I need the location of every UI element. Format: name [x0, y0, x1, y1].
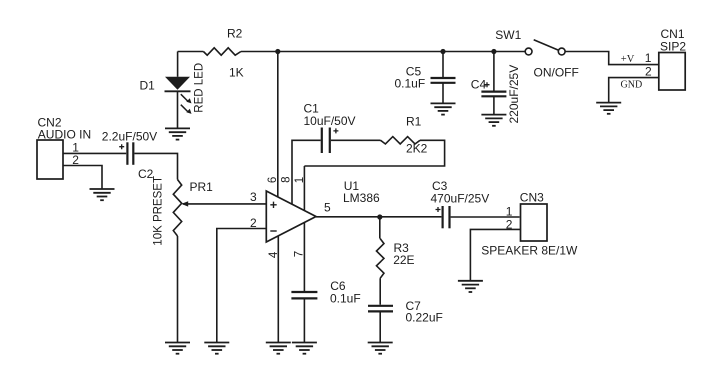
label C6 — [330, 279, 346, 293]
label C5 — [406, 65, 422, 79]
op-amp U1 — [266, 191, 316, 242]
polarity plus C3 — [436, 207, 441, 212]
label C3 — [432, 179, 448, 193]
ground CN2 — [90, 189, 115, 200]
svg-text:R2: R2 — [227, 27, 243, 41]
pin number 2 CN2 — [72, 153, 79, 167]
capacitor C6 — [291, 292, 317, 298]
svg-text:SIP2: SIP2 — [660, 39, 686, 53]
label LM386 — [343, 191, 380, 205]
resistor R1 — [381, 137, 421, 144]
svg-text:GND: GND — [621, 79, 643, 90]
pin number 2 — [250, 216, 257, 230]
wire pin7 down — [303, 223, 305, 291]
ground C5 — [431, 103, 456, 114]
value 1K — [229, 66, 244, 80]
svg-text:1: 1 — [645, 51, 652, 65]
potentiometer PR1 — [173, 180, 181, 237]
pin number 1 CN2 — [72, 141, 79, 155]
value 2K2 — [406, 141, 428, 155]
resistor R2 — [203, 48, 241, 55]
svg-text:2.2uF/50V: 2.2uF/50V — [102, 130, 157, 144]
svg-text:10K PRESET: 10K PRESET — [152, 176, 164, 246]
label PR1 — [190, 180, 214, 194]
wire C7 to ground — [379, 311, 381, 342]
wire op-amp pin2 to ground — [217, 229, 266, 343]
capacitor C7 — [368, 306, 393, 312]
diode D1 LED — [165, 77, 192, 114]
svg-text:C4: C4 — [471, 78, 487, 92]
svg-text:10uF/50V: 10uF/50V — [304, 114, 356, 128]
svg-text:3: 3 — [250, 190, 257, 204]
wire CN2 pin2 to ground — [63, 166, 102, 190]
wire PR1 bottom to ground — [177, 236, 179, 343]
wire PR1 wiper to pin3 — [181, 201, 266, 206]
wire CN1 pin2 to ground — [609, 78, 659, 102]
wire C5 to ground — [442, 83, 444, 104]
wire CN2 pin1 to C2 — [63, 152, 126, 154]
wire pin4 to ground — [277, 236, 279, 343]
value 10uF/50V — [304, 114, 356, 128]
ground pin4 — [266, 343, 291, 354]
svg-text:AUDIO IN: AUDIO IN — [38, 127, 91, 141]
resistor R3 — [376, 239, 384, 279]
ground C4 — [481, 115, 506, 126]
label D1 — [140, 78, 156, 92]
polarity plus C1 — [333, 128, 338, 133]
capacitor C4 — [481, 92, 506, 97]
wire pin6 to V+ rail — [277, 52, 279, 198]
value 0.1uF C6 — [330, 292, 361, 306]
switch SW1 — [525, 40, 565, 55]
label CN1 — [661, 27, 685, 41]
capacitor C2 — [127, 142, 133, 165]
connector CN3 — [521, 204, 548, 241]
svg-text:2: 2 — [645, 64, 652, 78]
label GND — [621, 79, 643, 90]
wire C4 drop — [493, 52, 495, 91]
pin number 2 CN1 — [645, 64, 652, 78]
wire C6 to ground — [303, 298, 305, 342]
wire C4 to ground — [493, 96, 495, 114]
svg-text:+V: +V — [621, 54, 635, 65]
label 10K PRESET — [152, 176, 164, 246]
value 220uF/25V — [507, 65, 521, 124]
wire R3 to C7 — [379, 278, 381, 305]
label SIP2 — [660, 39, 686, 53]
pin number 6 — [267, 177, 279, 183]
connector CN1 — [659, 53, 685, 91]
svg-text:22E: 22E — [393, 253, 414, 267]
wire R1 to pin1 — [304, 140, 444, 166]
wire pin1 down — [303, 166, 305, 211]
svg-text:0.1uF: 0.1uF — [395, 76, 426, 90]
wire C2 to PR1 top — [134, 153, 177, 179]
ground CN3 — [458, 281, 483, 292]
wire pin5 output — [316, 216, 441, 218]
label RED LED — [193, 63, 205, 113]
pin number 2 CN3 — [506, 217, 513, 231]
label U1 — [344, 179, 360, 193]
ground PR1 — [165, 343, 190, 354]
pin number 5 — [324, 200, 331, 214]
svg-text:RED LED: RED LED — [193, 63, 205, 113]
label R2 — [227, 27, 243, 41]
svg-text:1: 1 — [506, 204, 513, 218]
wire switch to CN1 pin1 — [565, 52, 659, 65]
label SW1 — [495, 28, 521, 42]
value 0.22uF — [406, 311, 443, 325]
wire pin8 up — [292, 140, 321, 204]
svg-text:R1: R1 — [406, 114, 422, 128]
pin number 3 — [250, 190, 257, 204]
svg-text:0.1uF: 0.1uF — [330, 292, 361, 306]
svg-text:7: 7 — [294, 251, 306, 257]
ground pin2 wire — [204, 343, 229, 354]
svg-text:220uF/25V: 220uF/25V — [507, 65, 521, 124]
label ON/OFF — [534, 65, 579, 79]
ground CN1 — [596, 103, 621, 114]
svg-text:5: 5 — [324, 200, 331, 214]
wire V+ rail left segment — [178, 51, 204, 53]
pin number 1 CN3 — [506, 204, 513, 218]
label SPEAKER 8E/1W — [481, 243, 578, 257]
value 0.1uF C5 — [395, 76, 426, 90]
capacitor C5 — [431, 78, 456, 83]
wire C1 to R1 — [331, 139, 381, 141]
svg-text:ON/OFF: ON/OFF — [534, 65, 579, 79]
label CN2 — [38, 116, 62, 130]
pin number 4 — [268, 251, 280, 258]
pin number 1 CN1 — [645, 51, 652, 65]
label C2 — [138, 167, 154, 181]
label +V — [621, 54, 635, 65]
svg-text:2: 2 — [250, 216, 257, 230]
wire C5 drop — [442, 52, 444, 78]
wire CN3 pin2 to ground — [470, 229, 520, 280]
label R1 — [406, 114, 422, 128]
label C1 — [304, 101, 320, 115]
wire D1 cathode to ground — [177, 91, 179, 128]
label AUDIO IN — [38, 127, 91, 141]
junction node C5/rail — [440, 49, 445, 54]
wire C3 to CN3 pin1 — [451, 216, 520, 218]
junction node output/R3 — [377, 214, 382, 219]
ground C7 — [368, 343, 393, 354]
svg-text:8: 8 — [280, 176, 292, 182]
svg-text:1K: 1K — [229, 66, 244, 80]
label C4 — [471, 78, 487, 92]
svg-text:4: 4 — [268, 251, 280, 258]
svg-text:D1: D1 — [140, 78, 156, 92]
junction node C4/rail — [491, 49, 496, 54]
connector CN2 — [37, 140, 63, 179]
ground D1 — [165, 128, 190, 139]
svg-text:1: 1 — [294, 177, 306, 183]
polarity plus C2 — [119, 144, 124, 149]
wire V+ rail middle segment — [241, 51, 525, 53]
wire D1 anode drop — [177, 52, 179, 77]
svg-text:SW1: SW1 — [495, 28, 521, 42]
svg-text:CN3: CN3 — [520, 191, 544, 205]
label R3 — [394, 241, 410, 255]
wire R3 top — [379, 217, 381, 239]
value 2.2uF/50V — [102, 130, 157, 144]
pin number 1 — [294, 177, 306, 183]
capacitor C3 — [443, 206, 450, 228]
value 22E — [393, 253, 414, 267]
svg-text:0.22uF: 0.22uF — [406, 311, 443, 325]
label C7 — [406, 299, 422, 313]
capacitor C1 — [322, 128, 330, 154]
junction node pin6/rail — [275, 49, 280, 54]
svg-text:LM386: LM386 — [343, 191, 380, 205]
pin number 7 — [294, 251, 306, 257]
svg-text:PR1: PR1 — [190, 180, 214, 194]
value 470uF/25V — [431, 192, 490, 206]
svg-text:SPEAKER 8E/1W: SPEAKER 8E/1W — [481, 243, 578, 257]
svg-text:470uF/25V: 470uF/25V — [431, 192, 490, 206]
ground C6 — [292, 343, 317, 354]
svg-text:2K2: 2K2 — [406, 141, 428, 155]
polarity plus C4 — [485, 82, 490, 87]
svg-text:6: 6 — [267, 177, 279, 183]
pin number 8 — [280, 176, 292, 182]
label CN3 — [520, 191, 544, 205]
